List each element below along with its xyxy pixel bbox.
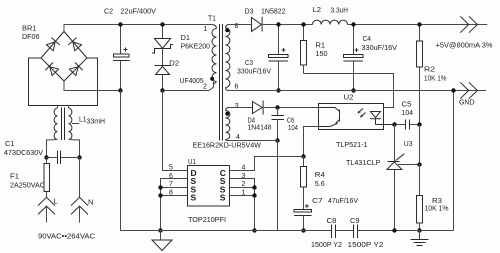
svg-text:C7: C7: [312, 196, 323, 205]
ground primary: [152, 231, 172, 251]
svg-text:10K 1%: 10K 1%: [424, 74, 447, 83]
output connector +5V: [436, 16, 493, 49]
output connector GND: [459, 82, 477, 106]
capacitor C4 330uF/16V: [344, 25, 398, 91]
node R2 top: [417, 22, 421, 26]
node C2 bottom: [118, 88, 122, 92]
svg-text:C3: C3: [245, 60, 253, 67]
resistor R3 10K 1%: [417, 196, 449, 231]
node source rail mid: [252, 228, 256, 232]
svg-text:C1: C1: [5, 139, 15, 148]
svg-text:1500P Y2: 1500P Y2: [311, 242, 342, 249]
terminal N: [71, 158, 93, 223]
transformer T1: [193, 14, 262, 150]
wire U1 source pins left tie: [161, 179, 188, 231]
node C1 right: [77, 155, 81, 159]
node C4 top: [351, 22, 355, 26]
node right pin1 tie: [252, 193, 256, 197]
wire secondary pin8 to D3: [229, 24, 252, 26]
svg-text:2A250VAC: 2A250VAC: [10, 181, 46, 190]
wire top DC+ rail primary side: [64, 25, 212, 32]
svg-text:6: 6: [235, 84, 239, 91]
wire bridge bottom to C2: [64, 81, 121, 91]
node drain junction: [160, 88, 164, 92]
svg-text:4: 4: [242, 165, 246, 172]
svg-text:1N5822: 1N5822: [261, 7, 286, 16]
svg-text:UF4005: UF4005: [180, 76, 204, 85]
node pin8 tie: [158, 193, 162, 197]
svg-text:S: S: [220, 193, 226, 203]
node C7 bottom: [301, 228, 305, 232]
svg-text:U1: U1: [188, 157, 196, 166]
svg-text:2: 2: [203, 84, 207, 91]
svg-text:R4: R4: [315, 170, 325, 179]
wire secondary ground rail: [229, 91, 487, 231]
node TL431 anode rail: [392, 228, 396, 232]
svg-text:+5V@800mA 3%: +5V@800mA 3%: [436, 41, 493, 50]
capacitor C1 473DC630V: [4, 139, 80, 164]
resistor R4 5.6: [301, 157, 325, 210]
svg-text:L: L: [54, 197, 58, 206]
svg-text:3: 3: [235, 103, 239, 110]
wire U1 control pin path: [230, 157, 304, 171]
node D1 top: [160, 22, 164, 26]
svg-text:C4: C4: [363, 36, 372, 43]
bridge rectifier BR1 diamond: [29, 32, 98, 106]
svg-text:C2: C2: [104, 7, 113, 16]
svg-text:F1: F1: [10, 172, 19, 181]
wire bias pin4: [229, 140, 278, 142]
svg-text:3.3uH: 3.3uH: [331, 6, 349, 15]
diode D4 1N4148: [229, 101, 319, 132]
node ref divider: [417, 162, 421, 166]
wire choke to C1 nodes: [47, 140, 80, 158]
terminal L: [38, 197, 58, 223]
IC U1 TOP210PFI: [169, 157, 246, 224]
svg-text:473DC630V: 473DC630V: [4, 148, 43, 157]
node D4 cathode: [275, 105, 279, 109]
svg-text:C9: C9: [350, 218, 360, 225]
svg-text:N: N: [88, 198, 93, 207]
svg-text:EE16R2KD-UR5V4W: EE16R2KD-UR5V4W: [193, 141, 262, 150]
svg-text:47uF/16V: 47uF/16V: [328, 196, 358, 205]
svg-text:22uF/400V: 22uF/400V: [121, 7, 157, 16]
node C4 bottom: [351, 88, 355, 92]
svg-text:150: 150: [316, 49, 328, 58]
wire bottom source rail: [121, 230, 454, 232]
TVS D1 P6KE200: [152, 25, 210, 54]
bridge diode lower-left: [45, 62, 59, 76]
node right pin2 tie: [252, 185, 256, 189]
capacitor C9 1500P Y2: [348, 218, 384, 249]
resistor R1 150: [301, 25, 328, 74]
inductor L2 3.3uH: [313, 5, 349, 25]
optocoupler U2 TLP521-1: [319, 92, 395, 149]
svg-text:TOP210PFI: TOP210PFI: [188, 215, 226, 224]
node divider top: [417, 122, 421, 126]
node C1 left: [44, 155, 48, 159]
svg-text:5.6: 5.6: [315, 179, 325, 188]
svg-text:P6KE200: P6KE200: [181, 42, 211, 51]
label input range: [38, 232, 96, 241]
capacitor C7 47uF/16V: [294, 196, 358, 231]
svg-text:104: 104: [402, 108, 414, 117]
svg-text:L2: L2: [313, 5, 322, 14]
bridge diode upper-right: [68, 38, 82, 52]
svg-text:D3: D3: [245, 7, 254, 16]
svg-text:GND: GND: [459, 98, 475, 107]
wire drain node to transformer pin 2: [163, 82, 214, 91]
node LED cathode: [392, 122, 396, 126]
choke L1 33mH: [54, 106, 105, 141]
node C2 top: [118, 22, 122, 26]
capacitor C3 330uF/16V: [237, 25, 288, 91]
svg-text:1500P Y2: 1500P Y2: [348, 242, 384, 249]
svg-text:1: 1: [204, 26, 208, 33]
label BR1 DF06: [22, 24, 40, 42]
svg-text:104: 104: [288, 125, 298, 132]
wire U1 source pins right tie: [230, 179, 255, 231]
svg-text:TLP521-1: TLP521-1: [336, 140, 368, 149]
bridge diode lower-right: [69, 62, 83, 76]
capacitor C2 22uF/400V: [104, 7, 156, 91]
diode D3 1N5822: [245, 7, 286, 32]
node C6 bottom / bias return: [275, 138, 279, 142]
capacitor C8 1500P Y2: [311, 218, 342, 249]
node control/emitter: [301, 154, 305, 158]
svg-text:C8: C8: [327, 218, 337, 225]
svg-text:R2: R2: [424, 65, 435, 74]
capacitor C5 104: [395, 100, 420, 130]
node R3 bottom: [417, 228, 421, 232]
svg-text:T1: T1: [208, 14, 216, 23]
wire secondary DC rail: [263, 24, 487, 26]
svg-text:1N4148: 1N4148: [248, 125, 272, 132]
wire primary return left: [120, 91, 122, 231]
svg-text:U3: U3: [404, 139, 413, 148]
wire bias return to ground rail: [277, 141, 279, 231]
wire opto emitter to control node: [304, 127, 319, 157]
earth ground: [411, 231, 429, 246]
wire R1 to opto LED feed: [304, 74, 394, 112]
node R1 top: [301, 22, 305, 26]
svg-text:TL431CLP: TL431CLP: [346, 158, 381, 167]
svg-text:C6: C6: [287, 118, 295, 125]
diode D2 UF4005: [155, 49, 204, 91]
capacitor C6 104: [272, 108, 299, 141]
node source rail left: [158, 228, 162, 232]
svg-text:10K 1%: 10K 1%: [425, 204, 449, 213]
fuse F1 2A250VAC: [10, 158, 50, 198]
wire divider vertical: [419, 125, 421, 196]
node C3 bottom: [276, 88, 280, 92]
svg-text:U2: U2: [344, 92, 354, 101]
svg-text:S: S: [191, 193, 197, 203]
svg-text:330uF/16V: 330uF/16V: [237, 69, 271, 76]
svg-text:90VAC••264VAC: 90VAC••264VAC: [38, 232, 96, 241]
svg-text:33mH: 33mH: [87, 119, 106, 126]
resistor R2 10K 1%: [417, 25, 447, 125]
node pin7 tie: [158, 185, 162, 189]
svg-text:D2: D2: [169, 59, 179, 68]
shunt regulator U3 TL431CLP: [346, 125, 420, 231]
svg-text:D4: D4: [248, 118, 256, 125]
node C3 top: [276, 22, 280, 26]
svg-text:DF06: DF06: [22, 32, 40, 41]
svg-text:330uF/16V: 330uF/16V: [362, 45, 398, 52]
node secondary gnd corner: [451, 88, 455, 92]
bridge diode upper-left: [46, 38, 60, 52]
svg-text:L1: L1: [79, 115, 87, 124]
svg-text:5: 5: [169, 165, 173, 172]
wire drain down to U1 pin5: [163, 91, 188, 171]
